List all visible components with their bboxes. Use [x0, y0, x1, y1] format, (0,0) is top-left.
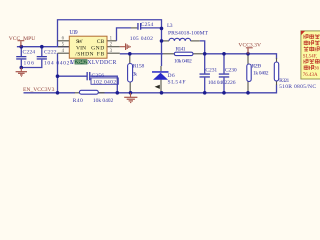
svg-text:105 0402: 105 0402 — [130, 36, 153, 42]
svg-text:10k 0402: 10k 0402 — [93, 98, 114, 104]
svg-text:C224: C224 — [23, 49, 36, 55]
svg-text:10k 0402: 10k 0402 — [174, 59, 192, 65]
svg-text:1k 0402: 1k 0402 — [253, 70, 269, 76]
svg-text:XLVDDCR: XLVDDCR — [87, 60, 116, 66]
svg-text:36: 36 — [314, 67, 320, 72]
svg-text:104 0402: 104 0402 — [44, 61, 70, 67]
svg-text:FB: FB — [97, 51, 105, 57]
svg-text:76.43A: 76.43A — [303, 73, 318, 78]
svg-text:C231: C231 — [205, 67, 217, 73]
svg-text:U19: U19 — [69, 30, 77, 36]
svg-text:VIN: VIN — [76, 45, 86, 51]
svg-text:SL54F: SL54F — [168, 80, 186, 86]
svg-text:CB: CB — [97, 39, 105, 45]
svg-text:R40: R40 — [73, 98, 83, 104]
svg-text:R158: R158 — [133, 64, 145, 70]
svg-text:D6: D6 — [168, 73, 175, 79]
svg-text:3k: 3k — [133, 72, 138, 78]
svg-text:C254: C254 — [141, 22, 154, 28]
svg-text:SL54F,: SL54F, — [303, 54, 317, 59]
svg-text:L3: L3 — [167, 23, 173, 29]
svg-text:510R 0805/NC: 510R 0805/NC — [279, 84, 316, 90]
svg-text:EN_VCC3V3: EN_VCC3V3 — [23, 87, 55, 93]
svg-text:R141: R141 — [176, 47, 186, 53]
svg-text:106: 106 — [24, 61, 35, 67]
svg-text:C222: C222 — [44, 49, 57, 55]
svg-text:226: 226 — [227, 80, 235, 86]
svg-text:104 0402: 104 0402 — [208, 80, 228, 86]
svg-text:SW: SW — [76, 39, 84, 45]
svg-text:PRS4018-100MT: PRS4018-100MT — [168, 31, 209, 37]
svg-text:2842: 2842 — [75, 60, 87, 66]
svg-text:C230: C230 — [225, 67, 237, 73]
svg-text:/SHDN: /SHDN — [75, 51, 93, 57]
svg-text:GND: GND — [91, 45, 104, 51]
svg-text:R239: R239 — [252, 64, 262, 70]
